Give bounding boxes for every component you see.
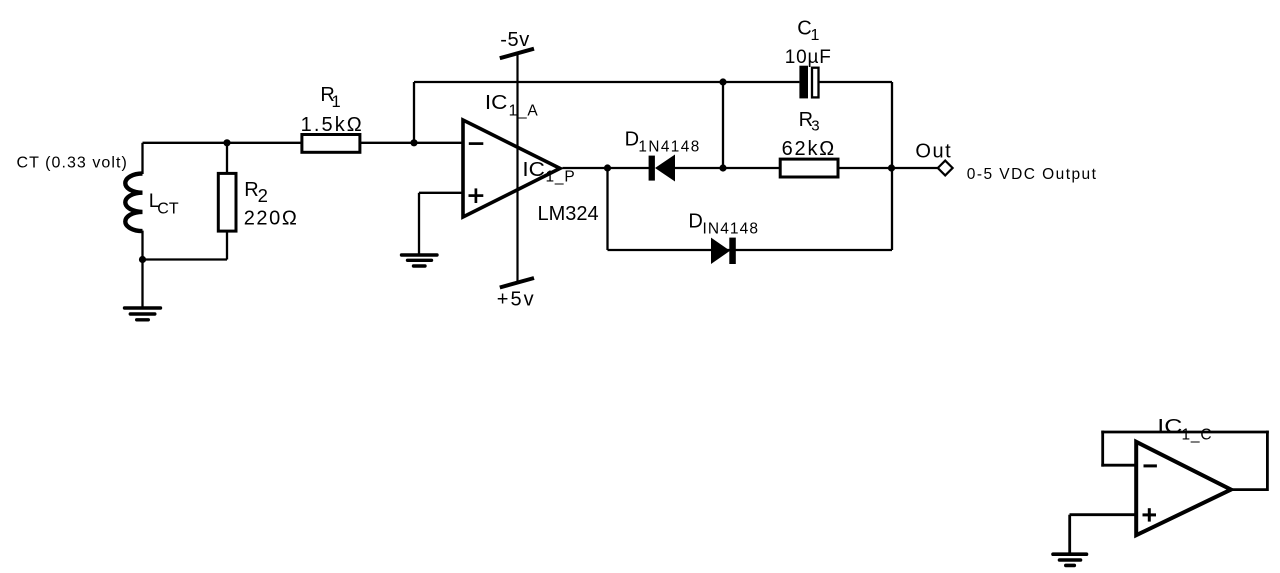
- ground GND1: [125, 260, 161, 320]
- diode D1 (cathode bar + triangle pointing left): [649, 155, 675, 182]
- svg-text:10µF: 10µF: [785, 47, 832, 68]
- supply bar -5v: [500, 49, 534, 59]
- svg-text:IC: IC: [522, 159, 545, 181]
- wire R1 to op-amp inverting input: [360, 142, 463, 144]
- feedback top wire: [414, 81, 799, 83]
- op-amp IC1_A: [463, 120, 560, 217]
- junction dot at out node: [888, 164, 895, 171]
- ground GND3: [1053, 554, 1087, 565]
- feedback riser left: [413, 82, 415, 143]
- svg-text:Out: Out: [915, 141, 952, 163]
- junction dot on top wire: [719, 78, 726, 85]
- diode D2 (triangle pointing right + cathode bar): [711, 238, 736, 264]
- out diamond terminal: [938, 161, 953, 176]
- resistor R1: [302, 135, 360, 153]
- wire R3 to out: [838, 167, 938, 169]
- junction dot at inverting input node: [410, 139, 417, 146]
- svg-text:1N4148: 1N4148: [638, 138, 700, 155]
- svg-text:IC: IC: [485, 92, 508, 114]
- ground GND2: [402, 255, 438, 266]
- junction node bottom-left: [139, 256, 146, 263]
- svg-text:R: R: [244, 179, 258, 201]
- inductor L_CT: [125, 143, 142, 260]
- svg-text:CT (0.33 volt): CT (0.33 volt): [17, 154, 128, 171]
- junction dot output node left: [604, 164, 611, 171]
- svg-text:+5v: +5v: [497, 288, 536, 310]
- svg-text:CT: CT: [157, 201, 179, 218]
- right riser (top wire to bottom wire): [891, 82, 893, 250]
- op-amp IC1_C triangle: [1136, 442, 1231, 535]
- supply bar +5v: [500, 278, 534, 288]
- junction dot on output wire mid: [719, 164, 726, 171]
- wire D1 to R3: [675, 167, 780, 169]
- output wire from op-amp: [563, 167, 650, 169]
- svg-text:62kΩ: 62kΩ: [782, 138, 836, 160]
- feedback loop wires IC1_C: [1101, 431, 1269, 491]
- resistor R3: [780, 159, 838, 177]
- svg-text:IN4148: IN4148: [703, 221, 760, 238]
- svg-text:1_C: 1_C: [1182, 427, 1213, 444]
- wire input node top (L_CT / R2 / R1): [143, 142, 303, 144]
- svg-text:0-5 VDC Output: 0-5 VDC Output: [967, 166, 1098, 183]
- power rail vertical: [516, 54, 518, 284]
- svg-text:1_P: 1_P: [546, 169, 576, 186]
- svg-text:-5v: -5v: [500, 29, 530, 51]
- bottom wire with D2: [608, 249, 893, 251]
- capacitor C1: [799, 66, 892, 99]
- svg-text:2: 2: [258, 185, 268, 206]
- svg-text:D: D: [688, 211, 702, 233]
- svg-text:1: 1: [332, 93, 341, 111]
- svg-text:LM324: LM324: [538, 203, 599, 225]
- junction node top-left: [223, 139, 230, 146]
- svg-text:IC: IC: [1157, 416, 1182, 438]
- svg-text:1_A: 1_A: [509, 102, 539, 119]
- svg-text:1.5kΩ: 1.5kΩ: [301, 114, 364, 136]
- svg-text:1: 1: [811, 27, 820, 44]
- svg-text:220Ω: 220Ω: [244, 207, 299, 229]
- wire noninverting input: [419, 193, 463, 255]
- riser from top wire to output wire: [722, 82, 724, 168]
- svg-text:D: D: [625, 129, 639, 151]
- wire bottom of parallel pair: [143, 258, 228, 260]
- svg-text:C: C: [797, 17, 811, 39]
- noninverting input wire IC1_C: [1070, 515, 1137, 553]
- left riser to bottom diode wire: [606, 168, 608, 250]
- resistor R2: [218, 143, 236, 260]
- svg-text:3: 3: [811, 118, 819, 135]
